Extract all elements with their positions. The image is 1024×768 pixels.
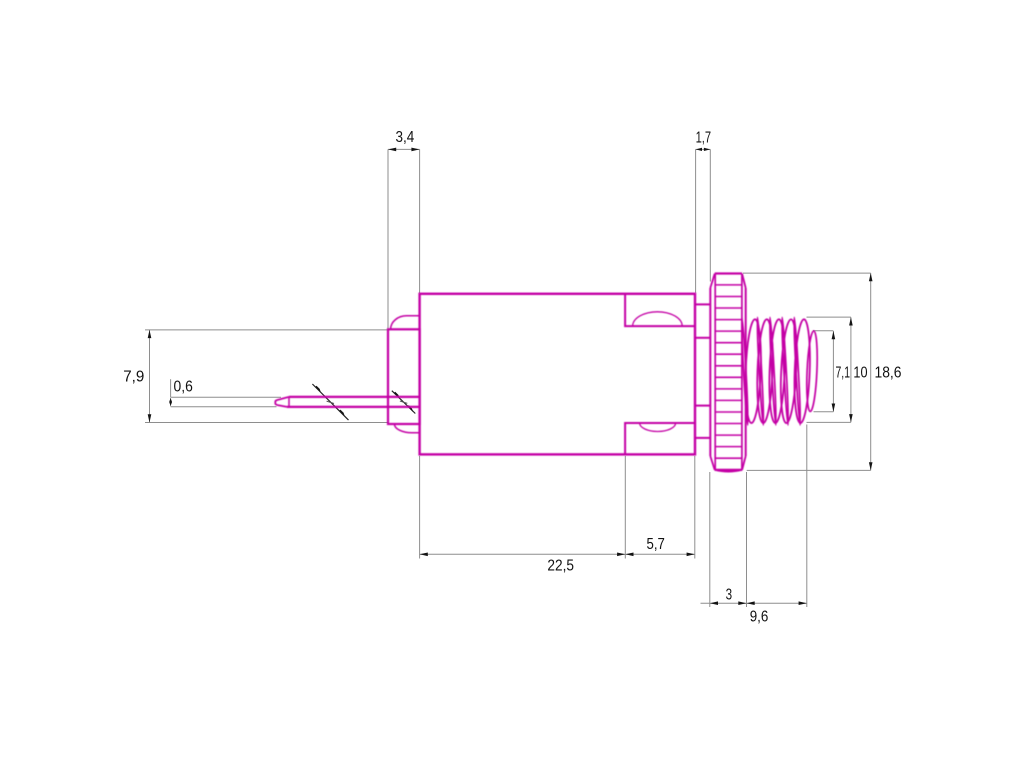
bottom boot arc: [394, 424, 419, 433]
svg-text:3,4: 3,4: [396, 129, 415, 146]
pin ext top: [171, 396, 281, 398]
arrow 22,5 left: [420, 553, 428, 557]
svg-text:5,7: 5,7: [647, 536, 665, 553]
ext 3/9,6 mid: [746, 472, 748, 607]
tick 0,6: [170, 379, 172, 397]
nut left face: [709, 288, 711, 456]
thread hairpin 3: [781, 317, 789, 425]
ext 9,6 right: [806, 425, 808, 608]
arrow 18,6 up: [869, 273, 873, 281]
svg-text:22,5: 22,5: [547, 558, 574, 575]
arrow 9,6 right: [799, 601, 807, 605]
arrow 3 right: [738, 601, 746, 605]
nut chamfer top-right: [742, 274, 746, 288]
left cap rectangle: [388, 329, 420, 424]
nut chamfer top-left: [710, 274, 714, 288]
dim 3 / 9,6 line: [701, 602, 807, 604]
ext 7,1 top: [813, 330, 833, 332]
thread tip ellipse: [805, 331, 818, 412]
svg-text:10: 10: [853, 365, 867, 382]
thread loop 2: [756, 319, 775, 423]
ext 1,7 right: [709, 149, 711, 281]
core bottom line: [695, 405, 710, 407]
svg-text:0,6: 0,6: [174, 378, 194, 395]
pin ext bottom: [171, 406, 277, 408]
thread loop 3: [768, 319, 787, 423]
knurl teeth lines: [715, 285, 742, 458]
svg-text:1,7: 1,7: [696, 129, 712, 146]
dimension labels: [123, 129, 902, 625]
pin tip boundary: [288, 397, 290, 407]
arrow 18,6 down: [869, 462, 873, 470]
collar bottom line: [695, 437, 710, 439]
bottom notch arc: [640, 423, 676, 432]
arrow 3,4 right: [411, 148, 419, 152]
arrow 7,9 down: [148, 414, 152, 422]
ext 18,6 top: [743, 272, 871, 274]
svg-text:7,9: 7,9: [123, 369, 144, 386]
svg-text:18,6: 18,6: [875, 365, 902, 382]
dim 1,7 line: [696, 148, 711, 150]
nut right face: [745, 288, 747, 456]
arrow 22,5 right: [617, 553, 625, 557]
arrow 7,9 up: [148, 330, 152, 338]
nut chamfer bottom-right: [742, 456, 746, 470]
gray dimension and extension lines: [145, 149, 871, 607]
body rectangle: [420, 294, 695, 455]
dim 7,1 line: [832, 331, 834, 412]
ext 10 bottom: [807, 421, 851, 423]
svg-text:7,1: 7,1: [836, 365, 851, 382]
pin top edge: [289, 396, 420, 398]
black dimension arrows: [148, 148, 873, 605]
ext 1,7 left: [695, 149, 697, 292]
pin bottom edge: [287, 406, 420, 408]
dim 3,4 line: [388, 148, 420, 150]
arrow 5,7 right: [687, 553, 695, 557]
arrow 10 down: [849, 414, 853, 422]
arrow 0,6 down: [169, 401, 172, 407]
ext 7,9 bottom: [145, 422, 388, 424]
ext 3,4 right: [419, 149, 421, 293]
ext 22,5/5,7 mid: [624, 456, 626, 559]
svg-text:3: 3: [726, 587, 733, 604]
nut bottom bulge: [715, 470, 742, 472]
top notch arc: [633, 312, 683, 326]
arrow 7,1 down: [832, 404, 836, 412]
arrow 0,6 up: [169, 397, 172, 403]
arrow 3,4 left: [388, 148, 396, 152]
thread loop 5: [793, 319, 812, 423]
ext 22,5 left: [419, 456, 421, 559]
arrow 10 up: [849, 317, 853, 325]
thread hairpin 1: [756, 317, 764, 425]
ext 18,6 bottom: [747, 469, 871, 471]
nut bottom face: [715, 469, 742, 471]
dim 22,5 / 5,7 line: [420, 553, 695, 555]
collar top line: [695, 303, 710, 305]
arrow 5,7 left: [625, 553, 633, 557]
ext 7,1 bottom: [814, 411, 834, 413]
core top line: [695, 337, 710, 339]
knurl strip right: [741, 274, 743, 470]
ext 10 top: [807, 316, 851, 318]
magenta component drawing: [275, 274, 818, 472]
svg-text:9,6: 9,6: [750, 608, 769, 625]
ext 5,7 right: [694, 456, 696, 559]
arrow 1,7 right: [704, 148, 710, 151]
arrow 3 left: [710, 601, 718, 605]
bottom-right notch: [625, 423, 695, 454]
thread loop 4: [779, 319, 799, 423]
thread hairpin 4: [793, 317, 801, 425]
knurl strip left: [714, 274, 716, 470]
thread loop 1: [744, 319, 763, 423]
break mark 1 on pin: [312, 384, 348, 420]
nut chamfer bottom-left: [710, 456, 714, 470]
pin tip: [275, 397, 289, 407]
arrow 1,7 left: [696, 148, 702, 151]
ext 7,9 top: [145, 329, 388, 331]
ext 3 left: [709, 472, 711, 607]
dim 18,6 line: [870, 273, 872, 470]
top boot arc: [391, 316, 420, 330]
arrow 7,1 up: [832, 331, 836, 339]
nut top face: [715, 272, 742, 274]
arrow 9,6 left: [747, 601, 755, 605]
thread hairpin 2: [769, 317, 777, 425]
break mark 2 on pin at cap: [392, 391, 416, 414]
dim 7,9 line: [149, 330, 151, 423]
top-right notch: [625, 294, 695, 326]
ext 3,4 left: [387, 149, 389, 328]
thread hairpin 0: [741, 317, 749, 425]
dim 10 line: [850, 317, 852, 422]
